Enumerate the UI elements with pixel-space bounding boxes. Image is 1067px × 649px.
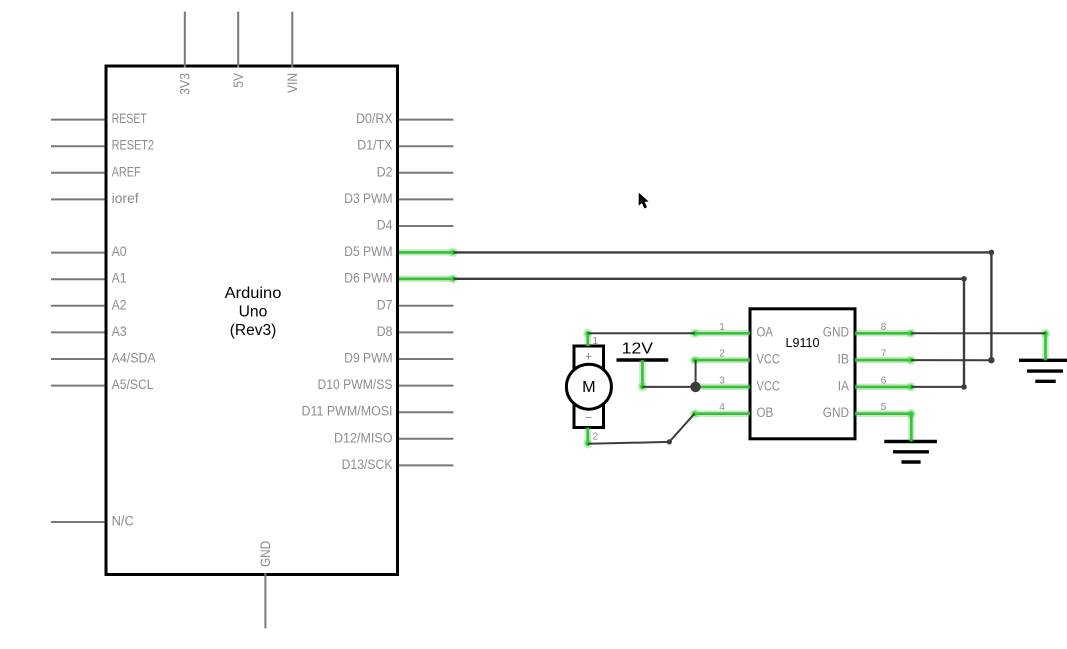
svg-text:7: 7 [881, 348, 887, 360]
U1 D5 endpoint [449, 248, 458, 257]
U2 pin 3 endpoint [690, 382, 699, 391]
svg-text:OB: OB [757, 405, 774, 420]
node VCC junction [690, 382, 700, 392]
U1 pin N/C stub [51, 521, 105, 523]
U2 pin 3 (VCC) stub [695, 384, 751, 391]
Arduino Uno U1 body [106, 66, 398, 575]
svg-text:N/C: N/C [112, 514, 135, 529]
svg-text:M: M [582, 379, 596, 396]
U1 pin D4 stub [399, 225, 453, 227]
svg-text:GND: GND [258, 541, 273, 567]
svg-text:ioref: ioref [112, 191, 139, 206]
U1 pin AREF stub [51, 172, 105, 174]
U2 pin 6 endpoint [907, 382, 916, 391]
U1 pin D11 PWM/MOSI stub [399, 411, 453, 413]
12V supply bar [617, 358, 669, 361]
U1 pin A0 stub [51, 252, 105, 254]
12V supply pin stub [639, 360, 646, 387]
svg-text:D7: D7 [377, 297, 393, 312]
svg-text:4: 4 [719, 401, 725, 413]
U2 pin 6 (IA) stub [855, 384, 911, 391]
wire GND pin8 to GND1 [911, 332, 1045, 334]
U1 pin GND stub [264, 573, 266, 628]
U2 pin 5 (GND) stub [855, 410, 911, 417]
U1 pin A3 stub [51, 331, 105, 333]
U1 pin RESET2 stub [51, 145, 105, 147]
U1 pin D2 stub [399, 172, 453, 174]
svg-text:3V3: 3V3 [177, 73, 192, 95]
U1 pin A5/SCL stub [51, 385, 105, 387]
U2 pin 5 endpoint [907, 409, 916, 418]
svg-text:Arduino: Arduino [225, 285, 282, 302]
U2 pin 4 endpoint [690, 409, 699, 418]
svg-text:(Rev3): (Rev3) [230, 322, 277, 339]
U1 pin D9 PWM stub [399, 358, 453, 360]
U1 pin 3V3 stub [184, 12, 186, 68]
wire 12V to VCC node [642, 386, 695, 388]
U2 pin 2 (VCC) stub [695, 357, 751, 364]
U1 pin 5V stub [237, 12, 239, 68]
svg-text:GND: GND [823, 405, 849, 420]
svg-text:D10 PWM/SS: D10 PWM/SS [318, 377, 393, 392]
U1 pin D5 PWM stub [399, 251, 453, 253]
svg-text:A0: A0 [112, 244, 127, 259]
svg-text:A4/SDA: A4/SDA [112, 351, 156, 366]
U2 pin 2 endpoint [690, 356, 699, 365]
U1 pin D6 PWM stub [399, 278, 453, 280]
svg-text:D1/TX: D1/TX [357, 138, 392, 153]
svg-text:3: 3 [719, 374, 725, 386]
svg-text:D12/MISO: D12/MISO [334, 430, 393, 445]
svg-text:D9 PWM: D9 PWM [344, 351, 392, 366]
ground GND1 endpoint [1041, 329, 1050, 338]
svg-text:RESET2: RESET2 [112, 138, 154, 153]
12V pin endpoint [638, 382, 647, 391]
mouse cursor [639, 193, 649, 209]
svg-text:D11 PWM/MOSI: D11 PWM/MOSI [302, 404, 393, 419]
svg-text:6: 6 [881, 374, 887, 386]
svg-text:8: 8 [881, 321, 887, 333]
U2 pin 1 endpoint [690, 329, 699, 338]
motor M1 pin1 endpoint [583, 329, 592, 338]
ground GND2 (below U2) [884, 442, 937, 463]
U1 pin D7 stub [399, 305, 453, 307]
svg-text:−: − [585, 410, 592, 424]
U1 pin ioref stub [51, 198, 105, 200]
svg-text:12V: 12V [622, 341, 654, 358]
svg-text:RESET: RESET [112, 111, 147, 126]
svg-text:VCC: VCC [757, 378, 781, 393]
U1 pin D8 stub [399, 331, 453, 333]
svg-text:D2: D2 [377, 164, 393, 179]
U1 pin D1/TX stub [399, 145, 453, 147]
svg-text:IB: IB [838, 352, 850, 367]
svg-text:A3: A3 [112, 324, 127, 339]
bend point IA wire [961, 384, 967, 390]
svg-text:D5 PWM: D5 PWM [344, 244, 392, 259]
U1 pin D12/MISO stub [399, 438, 453, 440]
wire IB pin7 segment [911, 359, 991, 361]
motor M1 pin 2 stub [585, 428, 592, 444]
svg-text:2: 2 [593, 431, 599, 443]
U1 pin D0/RX stub [399, 119, 453, 121]
svg-text:5V: 5V [231, 73, 246, 88]
U1 D5 PWM green leg [399, 249, 453, 256]
U2 pin 1 (OA) stub [695, 330, 751, 337]
svg-text:VCC: VCC [757, 352, 781, 367]
U2 pin 7 (IB) stub [855, 357, 911, 364]
motor M1 body rect [574, 346, 604, 428]
svg-text:5: 5 [881, 401, 887, 413]
svg-text:AREF: AREF [112, 164, 141, 179]
svg-text:L9110: L9110 [786, 335, 820, 350]
U1 pin D10 PWM/SS stub [399, 385, 453, 387]
svg-text:A1: A1 [112, 271, 127, 286]
svg-text:D8: D8 [377, 324, 393, 339]
motor M1 pin2 endpoint [583, 439, 592, 448]
ground GND1 (right) [1019, 360, 1067, 381]
svg-text:D3 PWM: D3 PWM [344, 191, 392, 206]
U1 pin A1 stub [51, 278, 105, 280]
svg-text:GND: GND [823, 325, 849, 340]
svg-text:A5/SCL: A5/SCL [112, 377, 154, 392]
svg-text:IA: IA [838, 378, 849, 393]
U1 pin VIN stub [291, 12, 293, 68]
svg-text:+: + [585, 349, 592, 363]
L9110 U2 body [750, 309, 855, 439]
svg-text:A2: A2 [112, 297, 127, 312]
svg-text:D6 PWM: D6 PWM [344, 270, 392, 285]
svg-text:1: 1 [719, 321, 725, 333]
U1 pin D3 PWM stub [399, 198, 453, 200]
wire IA pin6 segment [911, 386, 964, 388]
U2 pin 4 (OB) stub [695, 410, 751, 417]
bend point D5 wire [989, 250, 995, 256]
U1 D6 endpoint [449, 274, 458, 283]
U2 pin 7 endpoint [907, 356, 916, 365]
svg-text:VIN: VIN [285, 73, 300, 93]
ground GND2 pin stub [908, 414, 915, 442]
wire motor pin1 to OA [588, 332, 695, 334]
U1 D6 PWM green leg [399, 276, 453, 283]
wire VCC pin2 to VCC node [695, 360, 697, 387]
node IB/D5 junction [988, 357, 994, 363]
wire D5 to IB [453, 252, 991, 360]
svg-text:D13/SCK: D13/SCK [342, 457, 393, 472]
bend point motor pin2 wire [667, 439, 672, 444]
svg-text:D0/RX: D0/RX [356, 111, 392, 126]
U1 pin A4/SDA stub [51, 358, 105, 360]
U1 pin D13/SCK stub [399, 464, 453, 466]
motor M1 pin 1 stub [585, 333, 592, 346]
motor M1 circle [566, 364, 611, 409]
U2 pin 8 endpoint [907, 329, 916, 338]
U1 pin A2 stub [51, 305, 105, 307]
wire D6 to IA [453, 279, 964, 387]
U2 pin 8 (GND) stub [855, 330, 911, 337]
ground GND1 pin stub [1042, 333, 1049, 360]
U1 pin RESET stub [51, 119, 105, 121]
svg-text:D4: D4 [377, 218, 393, 233]
svg-text:Uno: Uno [239, 304, 268, 321]
svg-text:1: 1 [593, 335, 599, 347]
bend point D6 wire [961, 276, 967, 282]
svg-text:2: 2 [719, 348, 725, 360]
wire motor pin2 to OB [588, 414, 695, 444]
svg-text:OA: OA [757, 325, 774, 340]
